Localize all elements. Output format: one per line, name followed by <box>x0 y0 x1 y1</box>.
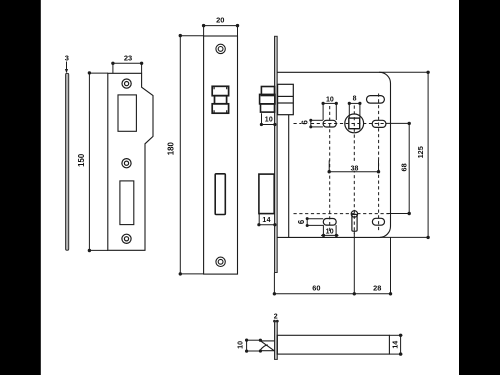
right black pillarbox bar <box>459 0 500 375</box>
svg-text:14: 14 <box>393 341 400 349</box>
follower circle <box>345 114 364 133</box>
dimension 14 deadbolt <box>257 214 276 227</box>
svg-text:10: 10 <box>238 341 245 349</box>
label 6 top <box>302 118 309 127</box>
label 2 <box>274 313 278 320</box>
strike plate outline <box>108 73 153 250</box>
label 6 bottom <box>298 218 305 227</box>
label 125 <box>416 146 425 158</box>
label 68 <box>399 163 408 171</box>
label 3 <box>65 53 69 62</box>
dimension 10 bottom slot <box>321 225 339 237</box>
center dashed lines <box>294 94 390 235</box>
top-right oblong slot <box>367 96 385 104</box>
svg-text:20: 20 <box>216 16 224 25</box>
label 60 <box>312 283 320 292</box>
label 8 <box>353 96 357 103</box>
dimension 2 ticks <box>273 320 279 323</box>
dimension 150 line <box>88 71 108 252</box>
label 28 <box>373 283 381 292</box>
svg-text:60: 60 <box>312 283 320 292</box>
label 14 deadbolt <box>262 217 270 224</box>
svg-text:23: 23 <box>124 54 132 63</box>
svg-text:28: 28 <box>373 283 381 292</box>
dimension 8 follower <box>348 102 362 118</box>
latch bolt front view <box>212 86 228 113</box>
arrow for 3 <box>65 62 68 74</box>
strike plate side view thin plate <box>66 73 69 250</box>
svg-text:150: 150 <box>77 153 86 167</box>
strike screw hole bottom <box>122 234 131 243</box>
label 10 bottom slot <box>326 228 334 235</box>
right slot <box>372 120 386 127</box>
lock case plan view <box>277 335 389 354</box>
deadbolt slot front view <box>215 174 225 215</box>
dimension 23 <box>111 62 143 74</box>
svg-text:10: 10 <box>265 116 273 123</box>
svg-text:6: 6 <box>301 119 310 124</box>
dashed centerline right slot <box>378 94 380 232</box>
dashed horizontal centerline bottom <box>294 213 390 215</box>
svg-text:10: 10 <box>326 97 334 104</box>
svg-text:6: 6 <box>297 219 306 224</box>
latch bolt side view head <box>260 87 275 113</box>
dashed centerline follower/keyhole <box>353 106 355 235</box>
lock case outline <box>277 72 390 237</box>
strike deadbolt cutout <box>120 181 134 225</box>
label 150 <box>77 153 86 167</box>
follower square <box>349 118 360 129</box>
dimension 14 plan <box>389 334 402 356</box>
dimension 10 latch protrusion <box>260 113 277 126</box>
faceplate plan view <box>275 322 278 360</box>
label 10 latch <box>265 116 273 123</box>
deadbolt side view <box>259 174 274 214</box>
bottom-right slot <box>372 218 384 225</box>
label 20 <box>216 16 224 25</box>
svg-text:3: 3 <box>65 53 69 62</box>
label 23 <box>124 54 132 63</box>
label 10 top slot <box>326 97 334 104</box>
left black pillarbox bar <box>0 0 41 375</box>
dimension 60 / 28 extension lines <box>273 232 393 296</box>
dimension 68 <box>386 122 411 215</box>
dashed horizontal centerline top <box>294 123 388 125</box>
dimension 10 plan <box>245 339 262 353</box>
svg-text:125: 125 <box>416 146 425 158</box>
svg-text:10: 10 <box>326 228 334 235</box>
strike screw hole middle <box>122 159 131 168</box>
faceplate side view <box>275 36 278 272</box>
dimension 6 top slot <box>309 119 323 129</box>
label 14 plan <box>393 341 400 349</box>
svg-text:38: 38 <box>351 166 359 173</box>
svg-text:14: 14 <box>262 217 270 224</box>
dimension 38 <box>328 160 381 173</box>
dashed centerline left slot <box>329 106 331 233</box>
top-left slot <box>323 120 336 127</box>
faceplate outline <box>204 36 238 274</box>
svg-text:180: 180 <box>166 142 175 156</box>
latch bolt body in case <box>278 84 294 114</box>
dimension 180 <box>179 34 204 276</box>
dimension 10 top slot <box>322 102 338 120</box>
keyhole <box>351 211 357 232</box>
dimension 6 bottom slot <box>306 217 324 227</box>
strike screw hole top <box>122 79 131 88</box>
svg-text:68: 68 <box>399 163 408 171</box>
label 38 <box>349 163 361 170</box>
label 180 <box>166 142 175 156</box>
bottom-left slot <box>323 219 336 226</box>
lock case inner edge <box>288 115 290 238</box>
label 10 plan <box>238 341 245 349</box>
latch bolt plan view bevel <box>260 341 275 351</box>
faceplate screw hole top <box>216 44 225 53</box>
dimension 125 <box>379 71 430 239</box>
dimension 20 <box>202 24 239 36</box>
svg-text:8: 8 <box>353 96 357 103</box>
strike latch cutout <box>118 95 136 131</box>
faceplate screw hole bottom <box>216 257 225 266</box>
svg-text:2: 2 <box>274 313 278 320</box>
